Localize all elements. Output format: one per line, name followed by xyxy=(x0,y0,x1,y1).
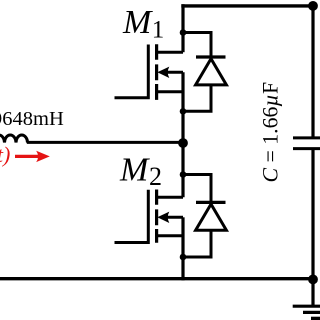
transistor M1 bulk stub xyxy=(163,71,183,74)
transistor M2 drain stub xyxy=(157,196,183,199)
capacitor label C = 1.66uF xyxy=(259,82,283,183)
transistor M2 channel segments xyxy=(155,190,158,243)
red current arrow xyxy=(15,155,42,158)
wire right rail lower xyxy=(311,149,314,307)
node bottom right xyxy=(308,275,318,285)
svg-text:M: M xyxy=(122,4,153,41)
svg-text:M: M xyxy=(119,152,150,189)
wire right rail upper xyxy=(311,4,314,138)
node M2 source junction xyxy=(180,254,187,261)
svg-text:2: 2 xyxy=(149,162,162,191)
transistor M2 bulk stub xyxy=(163,216,183,219)
transistor M2 source stub xyxy=(157,234,183,237)
wire top rail xyxy=(181,4,313,7)
svg-text:648mH: 648mH xyxy=(2,108,64,130)
svg-text:C = 1.66µF: C = 1.66µF xyxy=(259,82,283,183)
transistor M1 source stub xyxy=(157,90,183,93)
transistor M1 drain stub xyxy=(157,51,183,54)
svg-text:t): t) xyxy=(0,142,10,167)
transistor M1 bulk arrow xyxy=(157,67,169,78)
wire midpoint (inductor to node) xyxy=(27,141,183,144)
transistor M1 gate lead and gate bar xyxy=(115,45,149,98)
node M1 drain junction xyxy=(180,29,187,36)
svg-text:1: 1 xyxy=(152,16,165,43)
inductor L 0.648mH xyxy=(0,135,28,143)
node midpoint xyxy=(178,138,188,148)
wire bottom rail xyxy=(0,277,313,280)
node top right xyxy=(308,1,318,11)
diode D2 (body diode of M2) xyxy=(183,175,211,203)
wire M1 bulk/source down through midpoint to M2 drain xyxy=(181,72,184,197)
transistor M1 channel segments xyxy=(155,44,158,100)
node M1 source junction xyxy=(180,108,187,115)
transistor M2 bulk arrow xyxy=(157,212,169,223)
wire M1 drain up to rail xyxy=(181,4,184,52)
transistor M2 gate lead and gate bar xyxy=(115,190,149,243)
diode D1 (body diode of M1) xyxy=(183,33,211,58)
ground xyxy=(293,305,320,308)
wire M2 bulk/source down to bottom rail xyxy=(181,217,184,280)
label 648mH (cut at left) xyxy=(0,111,1,125)
node M2 drain junction xyxy=(180,171,187,178)
capacitor C plates xyxy=(293,138,320,149)
